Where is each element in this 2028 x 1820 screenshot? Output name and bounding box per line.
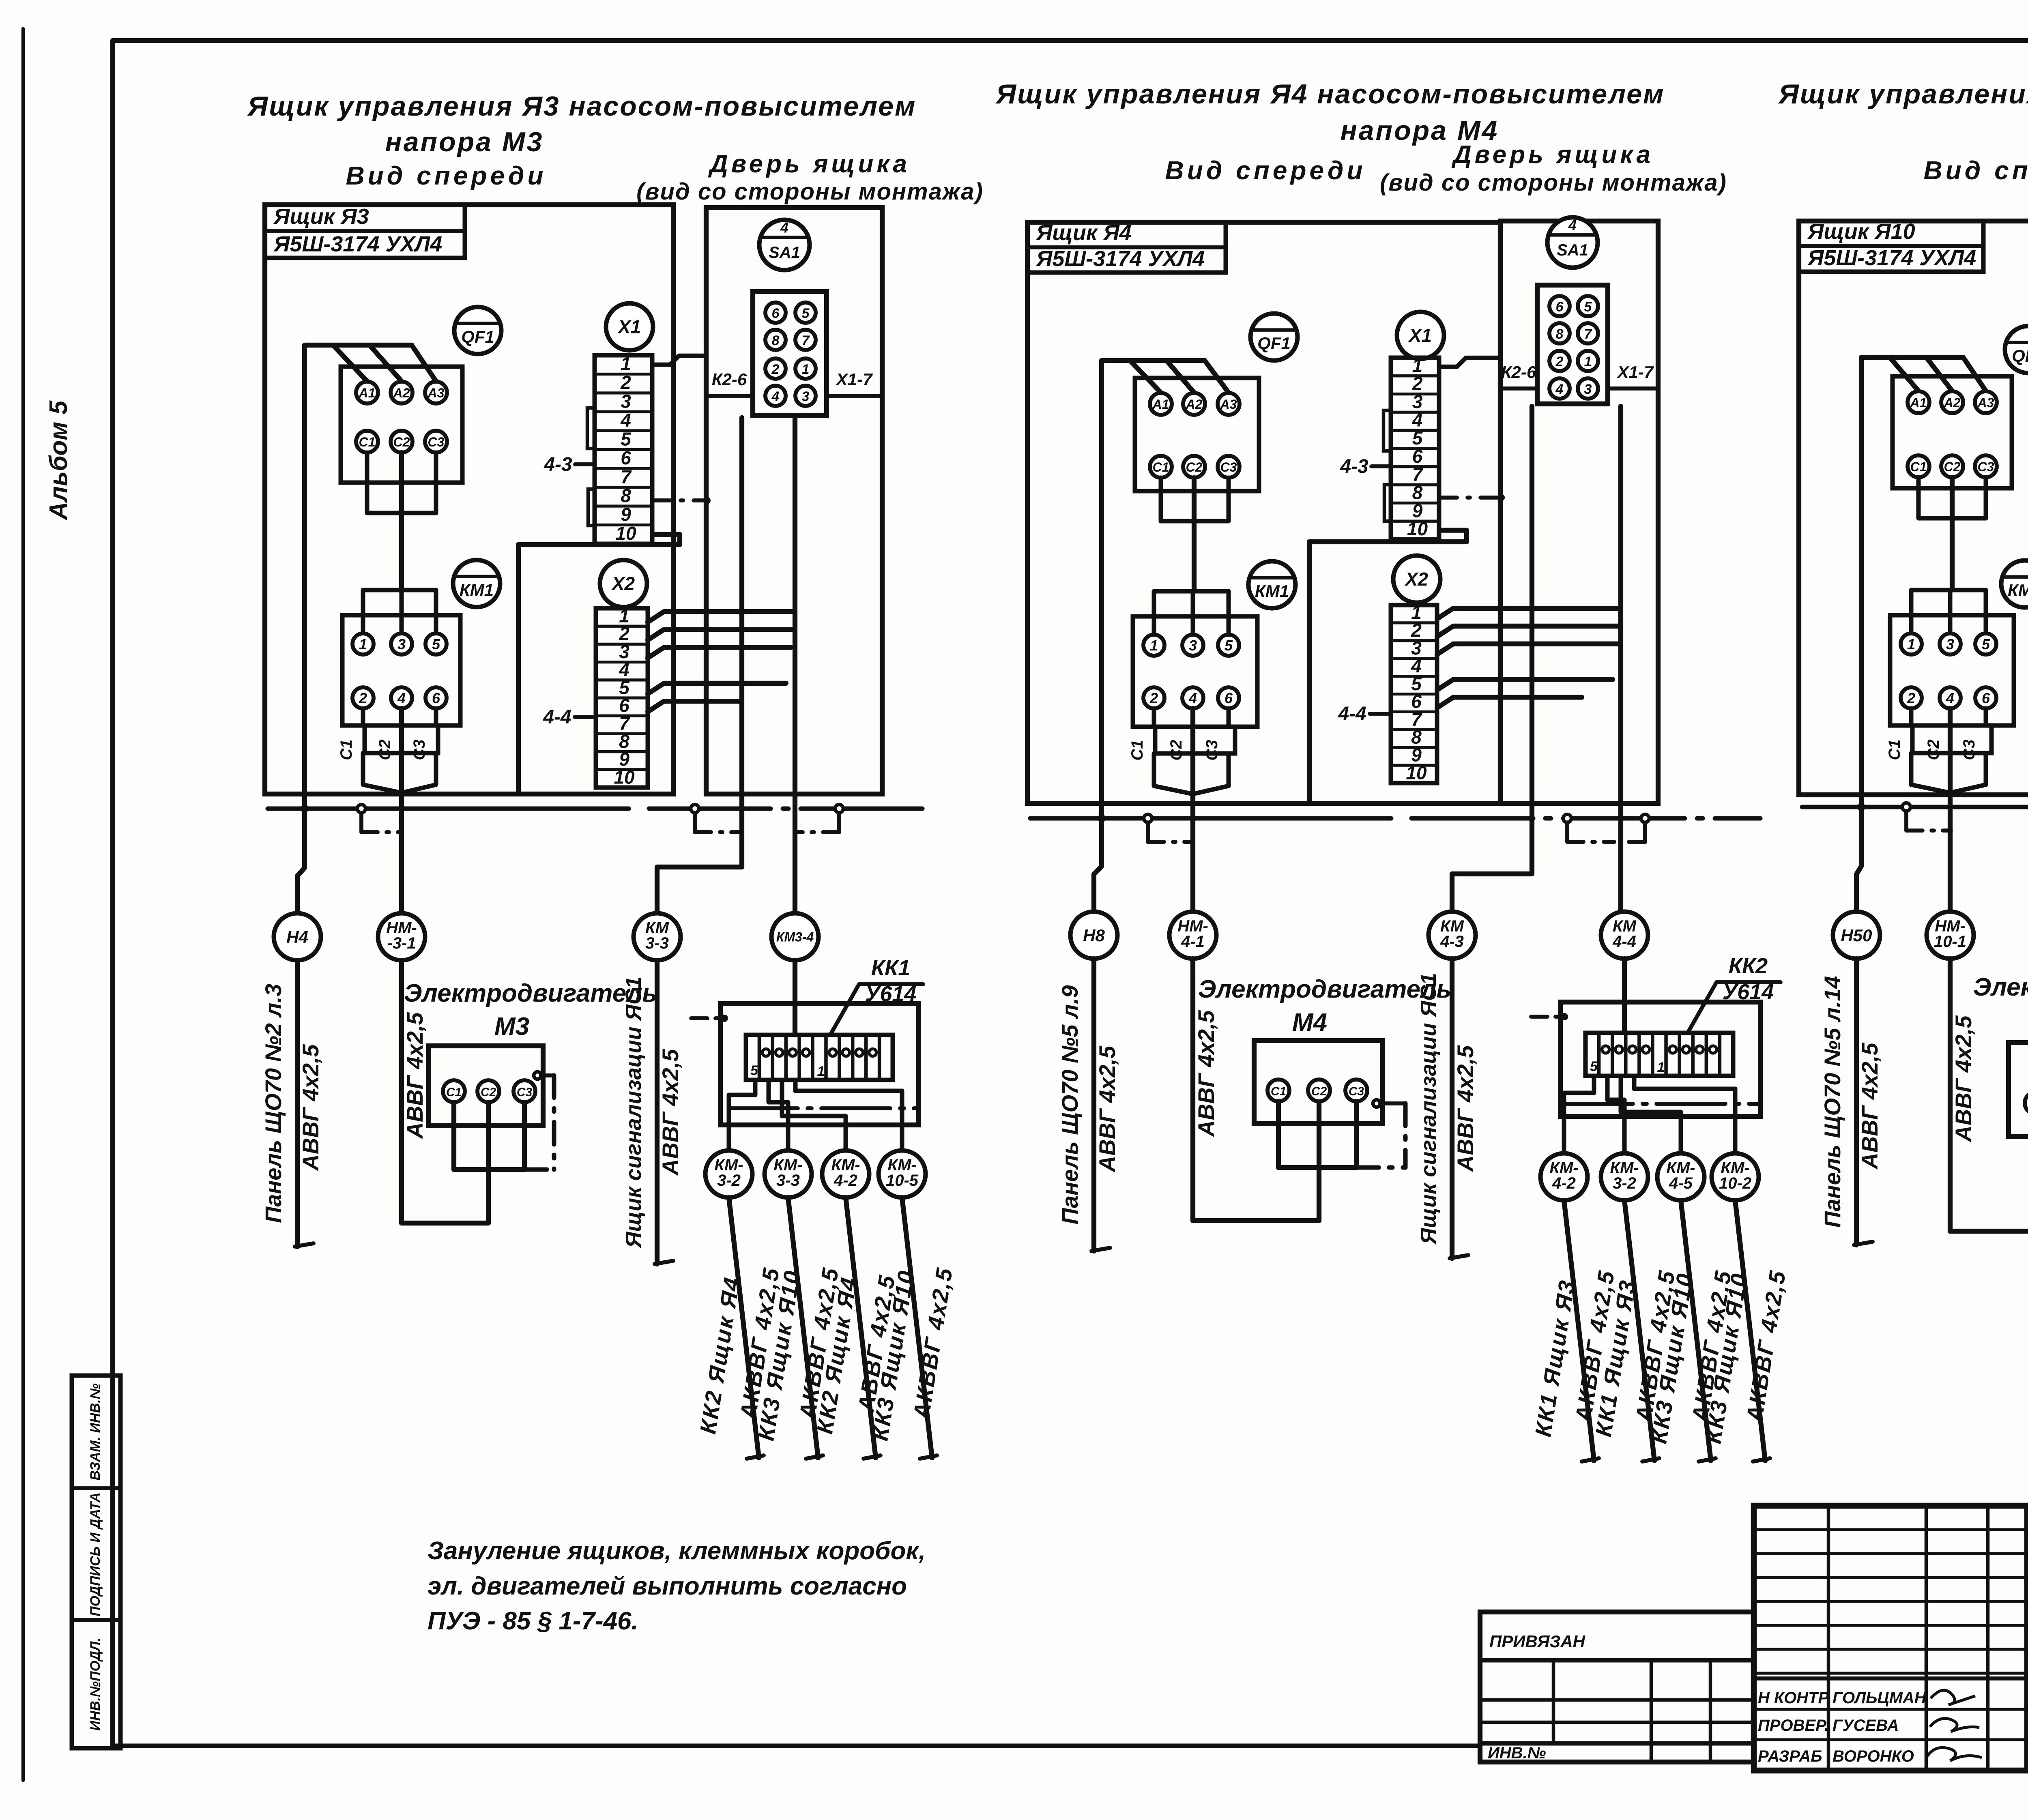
svg-text:5: 5 (802, 306, 810, 321)
cable mark КМ4-4 (Я4) (1601, 912, 1648, 959)
svg-text:5: 5 (621, 428, 632, 449)
wire: feeder drop L1 (Я4) (1130, 361, 1161, 393)
X1 mounting tab upper (Я4) (1384, 410, 1391, 451)
leader Х1-7 (Я4) (1608, 386, 1658, 391)
svg-text:К2-6: К2-6 (1501, 363, 1536, 382)
svg-text:8: 8 (621, 485, 631, 506)
dash-dot jog (Я3) (693, 813, 697, 832)
wire: door harness B (Я3) (793, 418, 797, 913)
cable mark КМ-4-2 (Я4) (1540, 1153, 1588, 1200)
svg-text:1: 1 (1907, 636, 1915, 652)
wire: to thermal relay block (Я3) (793, 960, 797, 1035)
terminal С1 of QF1 (Я4) (1150, 456, 1172, 478)
wire: motor leads merge (Я10) (1911, 753, 1950, 793)
X1 mounting tab lower (Я4) (1384, 485, 1391, 521)
cable mark КМ4-3 (Я4) (1429, 912, 1476, 959)
cable mark КМ-3-2 (Я3) (705, 1150, 752, 1198)
thermal relay terminal strip КК1 (746, 1035, 893, 1080)
terminal А3 of QF1 (Я4) (1218, 393, 1240, 415)
svg-text:С3: С3 (1203, 740, 1221, 760)
svg-text:Я5Ш-3174 УХЛ4: Я5Ш-3174 УХЛ4 (1807, 246, 1976, 270)
svg-text:3: 3 (621, 391, 631, 412)
enclosure Я4 front view box (1027, 222, 1500, 803)
svg-text:4: 4 (1188, 690, 1197, 706)
svg-text:QF1: QF1 (1257, 334, 1291, 353)
wire: motor earth dash-dot (Я4) (1403, 1103, 1408, 1168)
motor terminal box М3 (429, 1046, 543, 1126)
wire: X2-6 to door wiring (Я4) (1437, 697, 1582, 708)
svg-text:Х2: Х2 (1404, 569, 1429, 590)
dash-dot jog (Я3) (837, 813, 841, 832)
svg-text:А1: А1 (1910, 395, 1927, 410)
extension table box (1480, 1612, 1754, 1762)
relay cable line 1 (Я4) (1564, 1200, 1594, 1461)
svg-text:РАЗРАБ: РАЗРАБ (1758, 1747, 1822, 1765)
connector pin 1 (Я4) (1578, 351, 1598, 371)
svg-text:3-3: 3-3 (776, 1172, 800, 1189)
svg-text:А2: А2 (1944, 395, 1961, 410)
terminal 4 of KM1 (Я10) (1940, 687, 1961, 708)
svg-text:Х1: Х1 (1408, 325, 1432, 346)
bus line below enclosure (Я10) (1802, 805, 2028, 809)
svg-text:ИНВ.№: ИНВ.№ (1488, 1744, 1546, 1762)
junction on bus (Я4) (1641, 814, 1649, 822)
svg-text:С3: С3 (1960, 739, 1978, 760)
svg-text:5: 5 (1982, 636, 1990, 652)
connector pin 2 (Я3) (765, 358, 786, 379)
extension inner lines (1480, 1698, 1754, 1702)
svg-text:Ящик Я4: Ящик Я4 (1035, 221, 1132, 245)
bus line below enclosure (Я3) (268, 807, 629, 811)
selector switch SA1 (Я3) (759, 220, 810, 270)
wire: feeder drop L2 (Я4) (1167, 361, 1194, 393)
svg-text:5: 5 (750, 1063, 758, 1078)
terminal strip X1 (Я3) (595, 355, 652, 544)
wire: X2-5 to door wiring (Я3) (648, 683, 786, 694)
svg-text:3: 3 (1584, 382, 1592, 397)
motor terminal С1 (Я4) (1267, 1080, 1289, 1101)
door view box (Я4) (1500, 221, 1658, 803)
svg-text:А3: А3 (1220, 397, 1237, 412)
svg-text:2: 2 (620, 372, 631, 393)
svg-text:С3: С3 (517, 1086, 533, 1099)
nameplate box Я3 (265, 205, 465, 258)
wire: KM1 pin6 to outlet (Я4) (1227, 708, 1231, 727)
terminal 6 of KM1 (Я10) (1975, 687, 1996, 708)
X1 mounting tab upper (Я3) (587, 408, 595, 449)
terminal А1 of QF1 (Я10) (1908, 391, 1929, 413)
title row line 2 (2027, 1615, 2028, 1619)
svg-text:3: 3 (1189, 637, 1197, 654)
svg-text:2: 2 (771, 362, 780, 377)
svg-text:ВОРОНКО: ВОРОНКО (1833, 1747, 1914, 1765)
signal cable line (Я4) (1450, 959, 1454, 1258)
svg-text:Н4: Н4 (286, 927, 308, 946)
cable mark Н4 (Я3) (297, 809, 305, 913)
terminal 2 of KM1 (Я4) (1143, 687, 1164, 708)
leader 4-4 (Я4) (1370, 712, 1391, 716)
paper left edge line (21, 29, 25, 1780)
breaker terminal box QF1 (Я10) (1893, 376, 2012, 488)
wire: KM1 pin2 to outlet (Я3) (361, 708, 365, 725)
svg-text:С2: С2 (481, 1086, 496, 1099)
junction at feeder (Я3) (301, 805, 309, 813)
svg-text:4: 4 (620, 410, 631, 431)
motor terminal С3 (Я3) (513, 1080, 535, 1102)
wire: to thermal relay block (Я4) (1622, 959, 1627, 1033)
leader К2-6 (Я4) (1500, 386, 1537, 391)
wire: KM1 pin2 to outlet (Я4) (1152, 708, 1156, 727)
svg-text:7: 7 (621, 466, 632, 487)
terminal 2 of KM1 (Я3) (352, 687, 374, 708)
svg-text:С3: С3 (1978, 459, 1994, 474)
svg-text:С2: С2 (1925, 739, 1942, 760)
door connector block (Я3) (753, 292, 827, 415)
svg-text:10-1: 10-1 (1934, 933, 1966, 951)
svg-text:С3: С3 (410, 739, 428, 760)
svg-text:-3-1: -3-1 (387, 934, 416, 952)
svg-text:АВВГ 4х2,5: АВВГ 4х2,5 (402, 1012, 428, 1139)
svg-text:5: 5 (1584, 299, 1592, 315)
svg-text:1: 1 (802, 362, 810, 377)
wire: feeder drop L3 (Я3) (412, 345, 436, 381)
svg-text:Электродвигатель: Электродвигатель (1973, 973, 2028, 1001)
wire: X2-3 to door wiring (Я4) (1437, 644, 1618, 655)
wire: QF1 C2 to KM1 (Я4) (1192, 478, 1197, 591)
svg-text:Х1-7: Х1-7 (1617, 363, 1654, 382)
feeder cable line Я4 (1091, 959, 1096, 1251)
terminal А2 of QF1 (Я4) (1183, 393, 1205, 415)
wire: relay tap 1 (Я3) (729, 1080, 755, 1150)
motor cable line (Я3) (402, 960, 488, 1223)
svg-text:3: 3 (802, 389, 810, 404)
svg-text:4-3: 4-3 (1340, 456, 1368, 477)
svg-text:10-2: 10-2 (1719, 1174, 1751, 1192)
signal cable line (Я3) (655, 960, 660, 1264)
svg-text:АВВГ 4х2,5: АВВГ 4х2,5 (1857, 1042, 1882, 1170)
svg-text:1: 1 (1150, 637, 1158, 654)
svg-text:(вид со стороны монтажа): (вид со стороны монтажа) (1380, 170, 1727, 196)
svg-text:1: 1 (817, 1064, 825, 1079)
wire: feeder drop L3 (Я10) (1963, 357, 1986, 391)
circuit breaker QF1 (Я10) (2005, 326, 2028, 373)
svg-text:4-5: 4-5 (1669, 1174, 1693, 1192)
wire: X1-10 run (Я4) (1309, 530, 1467, 803)
svg-text:Панель ЩО70 №5 л.9: Панель ЩО70 №5 л.9 (1057, 985, 1083, 1225)
feeder cable line Я3 (295, 960, 300, 1247)
svg-text:6: 6 (772, 306, 780, 321)
svg-text:АВВГ 4х2,5: АВВГ 4х2,5 (298, 1044, 323, 1171)
terminal С1 of QF1 (Я3) (356, 431, 378, 453)
svg-text:SА1: SА1 (769, 244, 800, 262)
svg-text:С2: С2 (1944, 459, 1961, 474)
wire: X1-1 to door (Я4) (1439, 358, 1500, 367)
wire: KM1 pin3 drop (Я4) (1191, 591, 1195, 634)
svg-text:А2: А2 (1186, 397, 1203, 412)
svg-text:С2: С2 (1167, 740, 1185, 760)
terminal strip designator X2 (Я4) (1393, 556, 1440, 603)
wire: X2-6 to door wiring (Я3) (648, 701, 742, 712)
svg-text:2: 2 (359, 690, 367, 706)
motor terminal box М10 (2009, 1043, 2028, 1136)
junction on bus (Я4) (1144, 814, 1152, 822)
svg-text:QF1: QF1 (461, 327, 494, 347)
junction on bus (Я4) (1563, 814, 1571, 822)
svg-text:6: 6 (1225, 690, 1233, 706)
svg-text:5: 5 (432, 636, 440, 652)
svg-text:6: 6 (1556, 299, 1564, 315)
svg-text:С3: С3 (428, 435, 445, 449)
thermal relay outer box КК2 (1560, 1002, 1760, 1116)
terminal strip X1 (Я4) (1391, 358, 1439, 539)
leader Х1-7 (Я3) (827, 394, 882, 398)
wire: KM1 input bracket (Я4) (1154, 591, 1229, 634)
terminal С2 of QF1 (Я4) (1183, 456, 1205, 478)
svg-text:Электродвигатель: Электродвигатель (1198, 975, 1451, 1003)
terminal strip X2 (Я4) (1391, 605, 1437, 783)
svg-text:КМ1: КМ1 (460, 580, 494, 599)
wire: QF1 C1 link (Я10) (1918, 477, 1986, 518)
connector pin 4 (Я4) (1549, 378, 1570, 399)
svg-text:Ящик сигнализации ЯС1: Ящик сигнализации ЯС1 (1416, 973, 1441, 1245)
svg-text:С2: С2 (1186, 460, 1203, 474)
connector pin 1 (Я3) (795, 358, 816, 379)
cable mark КМ-3-2 (Я4) (1601, 1153, 1648, 1200)
wire: KM1 pin2 to outlet (Я10) (1909, 708, 1914, 725)
title mid line (2027, 1683, 2028, 1688)
wire: incoming feeder bus (Я3) (305, 345, 412, 809)
wire: relay tap 1 (Я4) (1564, 1076, 1594, 1153)
relay cable line 4 (Я4) (1735, 1200, 1765, 1461)
title block outer box (1754, 1506, 2028, 1771)
leader 4-4 (Я3) (575, 715, 596, 719)
cable mark Н50 (Я10) (1856, 807, 1861, 912)
thermal relay terminal strip КК2 (1585, 1033, 1733, 1076)
svg-text:А1: А1 (1152, 397, 1169, 412)
motor terminal box М4 (1254, 1041, 1382, 1124)
terminal 1 of KM1 (Я10) (1901, 633, 1922, 655)
KM1 outlet box (Я4) (1155, 727, 1235, 753)
wire: door harness B (Я4) (1618, 406, 1623, 912)
dash-dot entry to КК1 (691, 1016, 725, 1020)
junction at feeder (Я10) (1857, 803, 1865, 811)
connector pin 6 (Я3) (765, 303, 786, 323)
terminal 3 of KM1 (Я4) (1182, 635, 1203, 656)
wire: door harness A (Я4) (1452, 406, 1532, 912)
connector pin 2 (Я4) (1549, 351, 1570, 371)
svg-text:10: 10 (615, 523, 636, 544)
svg-text:4-4: 4-4 (1612, 933, 1636, 951)
dash-dot jog (Я4) (1565, 822, 1569, 842)
wire: feeder drop L1 (Я3) (333, 345, 367, 381)
terminal А2 of QF1 (Я3) (391, 382, 412, 403)
svg-text:4-1: 4-1 (1181, 933, 1205, 951)
connector pin 5 (Я3) (795, 303, 816, 323)
connector pin 6 (Я4) (1549, 296, 1570, 316)
connector pin 3 (Я3) (795, 386, 816, 406)
wire: X2-2 to door wiring (Я3) (648, 629, 795, 640)
terminal С3 of QF1 (Я4) (1218, 456, 1240, 478)
svg-text:3-2: 3-2 (717, 1172, 741, 1189)
svg-text:SА1: SА1 (1557, 241, 1588, 259)
breaker terminal box QF1 (Я4) (1135, 378, 1259, 491)
svg-text:Дверь ящика: Дверь ящика (708, 150, 910, 178)
label underline КК2 (Я4) (1716, 980, 1781, 984)
terminal 2 of KM1 (Я10) (1901, 687, 1922, 708)
enclosure Я10 front view box (1799, 221, 2028, 795)
svg-text:4-4: 4-4 (1338, 703, 1366, 725)
svg-text:Дверь ящика: Дверь ящика (1451, 141, 1654, 169)
svg-text:10: 10 (1407, 518, 1428, 539)
svg-text:С1: С1 (1910, 459, 1927, 474)
wire: motor delta links (Я3) (454, 1102, 524, 1170)
svg-text:6: 6 (432, 690, 440, 706)
cable mark НМ-4-1 (Я4) (1169, 912, 1216, 959)
svg-text:С1: С1 (1128, 740, 1146, 760)
svg-text:Панель ЩО70 №5 л.14: Панель ЩО70 №5 л.14 (1820, 976, 1845, 1228)
svg-text:К2-6: К2-6 (712, 370, 747, 389)
svg-text:2: 2 (1149, 690, 1158, 706)
enclosure Я3 front view box (265, 205, 673, 794)
wire: KM1 input bracket (Я10) (1911, 590, 1986, 633)
svg-text:Я5Ш-3174 УХЛ4: Я5Ш-3174 УХЛ4 (273, 232, 442, 256)
KM1 outlet box (Я10) (1912, 725, 1991, 753)
terminal 4 of KM1 (Я4) (1182, 687, 1203, 708)
svg-text:Н8: Н8 (1083, 926, 1105, 945)
cable mark КМ3-4 (Я3) (771, 913, 819, 960)
wire: relay tap 2 (Я3) (769, 1080, 788, 1150)
svg-text:С1: С1 (359, 435, 376, 449)
svg-text:АВВГ 4х2,5: АВВГ 4х2,5 (1193, 1010, 1219, 1137)
extension row Привязан (1480, 1658, 1754, 1663)
wire: motor leads merge (Я3) (363, 753, 402, 793)
svg-text:Ящик управления Я3 насосом-пов: Ящик управления Я3 насосом-повысителем (247, 91, 917, 122)
wire: feeder drop L3 (Я4) (1205, 361, 1229, 393)
wire: feeder drop L1 (Я10) (1890, 357, 1918, 391)
svg-text:АВВГ 4х2,5: АВВГ 4х2,5 (1094, 1045, 1120, 1173)
svg-text:5: 5 (1225, 637, 1233, 654)
wire: X2-2 to door wiring (Я4) (1437, 626, 1621, 637)
wire: X2-1 to door wiring (Я3) (648, 612, 795, 622)
circuit breaker QF1 (Я4) (1250, 313, 1298, 361)
wire: QF1 C1 link (Я4) (1161, 478, 1229, 521)
svg-text:Зануление ящиков, клеммных: Зануление ящиков, клеммных коробок, (428, 1537, 926, 1565)
nameplate box Я10 (1799, 221, 1983, 272)
svg-text:М3: М3 (494, 1013, 529, 1041)
svg-text:Х1-7: Х1-7 (836, 370, 873, 389)
svg-text:9: 9 (621, 504, 631, 525)
svg-text:КК1: КК1 (871, 956, 910, 980)
svg-text:3-3: 3-3 (645, 934, 669, 952)
signature grid (1754, 1506, 2027, 1771)
wire: KM1 pin4 down to НМ cable (Я10) (1948, 708, 1953, 912)
circuit breaker QF1 (Я3) (454, 307, 501, 354)
svg-text:Ящик Я3: Ящик Я3 (273, 204, 369, 229)
wire: X2-3 to door wiring (Я3) (648, 648, 791, 658)
dash-dot jog (Я4) (1643, 822, 1647, 842)
wire: KM1 pin6 to outlet (Я3) (434, 708, 438, 725)
svg-text:4: 4 (1946, 690, 1954, 706)
motor cable line (Я4) (1193, 959, 1319, 1221)
contactor terminal box KM1 (Я4) (1133, 616, 1257, 727)
terminal 1 of KM1 (Я3) (352, 633, 374, 655)
svg-text:1: 1 (1584, 354, 1592, 369)
terminal С3 of QF1 (Я3) (425, 431, 447, 453)
motor terminal С2 (Я4) (1308, 1080, 1330, 1101)
junction on bus (Я10) (1902, 803, 1910, 811)
relay cable line 2 (Я4) (1624, 1200, 1654, 1461)
svg-text:Н КОНТР: Н КОНТР (1758, 1689, 1829, 1707)
terminal 5 of KM1 (Я10) (1975, 633, 1996, 655)
svg-text:Ящик сигнализации ЯС1: Ящик сигнализации ЯС1 (621, 977, 646, 1249)
wire: QF1 C2 to KM1 (Я10) (1950, 477, 1955, 590)
wire: X1-9 link dash-dot (Я3) (652, 498, 708, 502)
motor terminal С2 (Я3) (477, 1080, 499, 1102)
feeder cable line Я10 (1854, 959, 1859, 1245)
dash-dot jog (Я10) (1904, 811, 1908, 831)
svg-text:КК2: КК2 (1729, 954, 1768, 978)
dash-dot jog (Я4) (1146, 822, 1150, 842)
wire: motor leads merge (Я4) (1154, 753, 1193, 794)
terminal А3 of QF1 (Я10) (1975, 391, 1997, 413)
svg-text:напора М3: напора М3 (385, 127, 544, 157)
connector pin 7 (Я4) (1578, 323, 1598, 343)
wire: relay tap 4 (Я4) (1634, 1076, 1735, 1153)
svg-text:4-3: 4-3 (544, 454, 572, 475)
connector pin 7 (Я3) (795, 330, 816, 350)
svg-text:эл. двигателей выполнить сог: эл. двигателей выполнить согласно (428, 1572, 907, 1600)
svg-text:ГОЛЬЦМАН: ГОЛЬЦМАН (1833, 1689, 1927, 1707)
svg-text:10: 10 (1406, 762, 1427, 783)
title block designation cell line (2024, 1506, 2028, 1771)
svg-text:Н50: Н50 (1841, 926, 1872, 945)
wire: KM1 pin4 down to НМ cable (Я3) (399, 708, 404, 913)
svg-text:2: 2 (1907, 690, 1915, 706)
terminal 1 of KM1 (Я4) (1143, 635, 1164, 656)
terminal 4 of KM1 (Я3) (391, 687, 412, 708)
svg-text:С1: С1 (1153, 460, 1169, 474)
label leader КК2 (Я4) (1688, 982, 1716, 1032)
svg-text:ВЗАМ. ИНВ.№: ВЗАМ. ИНВ.№ (88, 1383, 103, 1480)
svg-text:С2: С2 (1311, 1085, 1327, 1098)
svg-text:КМ1: КМ1 (2008, 581, 2028, 600)
svg-text:7: 7 (802, 333, 810, 348)
junction on bus (Я3) (357, 805, 365, 813)
svg-text:Ящик управления Я4 насосом-пов: Ящик управления Я4 насосом-повысителем (995, 79, 1665, 109)
svg-text:4: 4 (771, 389, 780, 404)
junction on bus (Я3) (835, 805, 843, 813)
wire: relay tap 4 (Я3) (795, 1080, 902, 1150)
svg-text:4-4: 4-4 (543, 706, 571, 728)
title row line 1 (2027, 1575, 2028, 1579)
svg-text:Ящик управления Я10 насосом-по: Ящик управления Я10 насосом-повысителем (1778, 79, 2028, 109)
cable mark НМ-10-1 (Я10) (1927, 912, 1974, 959)
svg-text:А3: А3 (428, 386, 445, 400)
svg-text:2: 2 (1555, 354, 1564, 369)
dash-dot jog (Я3) (359, 813, 363, 832)
breaker terminal box QF1 (Я3) (341, 367, 462, 483)
terminal 3 of KM1 (Я3) (391, 633, 412, 655)
wire: X2-1 to door wiring (Я4) (1437, 608, 1621, 619)
svg-text:1: 1 (621, 353, 631, 374)
connector pin 3 (Я4) (1578, 378, 1598, 399)
signature scribble 1 (1931, 1690, 1975, 1705)
terminal 5 of KM1 (Я4) (1218, 635, 1239, 656)
label leader КК1 (Я3) (831, 984, 859, 1034)
terminal 6 of KM1 (Я4) (1218, 687, 1239, 708)
wire: X1-1 to door (Я3) (652, 356, 706, 365)
svg-text:Х2: Х2 (611, 573, 635, 594)
